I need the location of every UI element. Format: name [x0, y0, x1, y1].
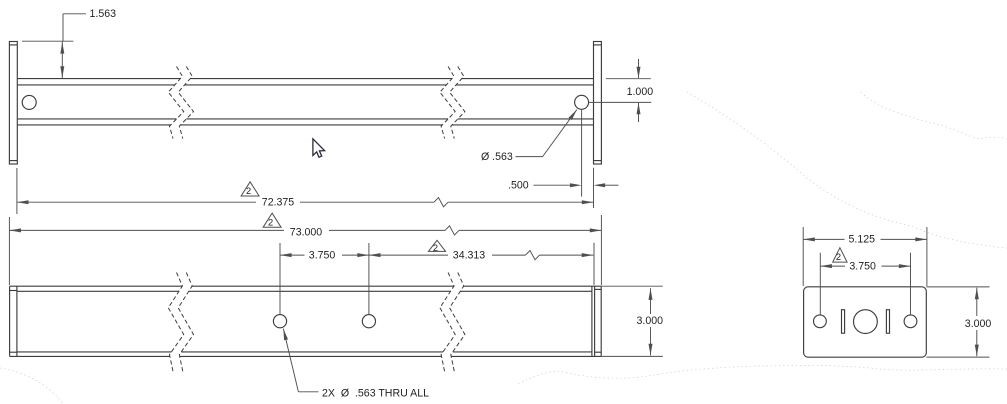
dim 1.563 arrows: [61, 41, 63, 78]
end view slot right: [886, 310, 889, 334]
plan view break symbol left: [168, 273, 183, 372]
svg-text:3.000: 3.000: [637, 315, 664, 327]
end view plate outline: [804, 287, 927, 357]
svg-text:2X Ø .563 THRU ALL: 2X Ø .563 THRU ALL: [322, 388, 429, 400]
end view center hole: [854, 310, 878, 334]
background faint curve bottom: [518, 365, 1007, 384]
dim 1.000 arrows: [638, 59, 640, 78]
side view break symbol right: [440, 67, 455, 139]
dim 3.000 end line: [976, 288, 978, 316]
svg-text:72.375: 72.375: [262, 196, 295, 208]
plan view break symbol right: [440, 273, 455, 372]
plan view hole 1: [273, 315, 286, 328]
svg-text:1.563: 1.563: [90, 8, 117, 20]
svg-text:3.750: 3.750: [849, 260, 876, 272]
plan view right end lines: [591, 286, 593, 356]
dim 1.563 extension line: [22, 40, 73, 42]
svg-text:2: 2: [268, 217, 273, 227]
dim 5.125 extension lines: [802, 227, 804, 286]
dim 73.000 line: [9, 228, 21, 232]
dim 34.313 extension line right: [593, 243, 595, 285]
dim 3.750 end line: [820, 264, 832, 268]
leader 2X thru holes: [283, 329, 288, 341]
svg-text:34.313: 34.313: [453, 249, 486, 261]
mouse cursor: [313, 139, 325, 158]
svg-text:2: 2: [836, 252, 841, 262]
dim 73.000 extension line right: [600, 215, 602, 285]
dim 72.375 flag triangle 2: [241, 182, 259, 196]
end view hole left: [814, 315, 827, 328]
dim 73.000 extension line left: [8, 217, 10, 285]
side view hole right: [575, 95, 589, 109]
dim 72.375 extension line left: [16, 168, 18, 214]
dim 34.313 line: [369, 253, 381, 257]
dim 3.000 end extension lines: [926, 286, 989, 288]
dim 73.000 flag triangle 2: [263, 213, 281, 227]
svg-text:3.000: 3.000: [965, 318, 992, 330]
background faint curve upper-right: [687, 92, 1007, 248]
dim 3.750 end extension lines: [819, 253, 821, 315]
dim 3.750 plan extension lines: [279, 243, 281, 314]
svg-text:2: 2: [246, 186, 251, 196]
side view hole left: [22, 95, 36, 109]
end view slot left: [842, 310, 845, 334]
dim .500 extension line tube end: [593, 168, 595, 208]
dim 72.375 line: [17, 200, 29, 204]
svg-text:3.750: 3.750: [309, 249, 336, 261]
svg-text:.500: .500: [508, 180, 529, 192]
svg-text:2: 2: [433, 243, 438, 253]
dim .500 lines: [534, 184, 572, 186]
dim 1.563 leader: [63, 13, 86, 15]
dim 5.125 line: [803, 237, 815, 241]
background faint arc bottom-left: [0, 368, 63, 404]
plan view tube outline lines: [10, 285, 183, 287]
plan view hole 2: [362, 315, 375, 328]
svg-text:1.000: 1.000: [627, 86, 654, 98]
end view hole right: [904, 315, 917, 328]
dim 3.750 end flag triangle 2: [833, 248, 847, 262]
dim 3.000 plan line: [650, 288, 652, 314]
svg-text:5.125: 5.125: [849, 234, 876, 246]
dim .500 extension line hole: [581, 110, 583, 197]
dim 34.313 flag triangle 2: [428, 240, 445, 251]
side view right end plate: [594, 42, 602, 165]
callout dia .563 leader: [516, 156, 543, 158]
background faint curve right: [861, 92, 1007, 139]
side view tube outline lines: [17, 78, 180, 80]
svg-text:Ø .563: Ø .563: [481, 151, 513, 163]
dim 1.000 extension lines: [606, 78, 651, 80]
dim 3.000 plan extension lines: [601, 285, 663, 287]
svg-text:73.000: 73.000: [290, 226, 323, 238]
plan view left end lines: [9, 286, 11, 356]
side view left end plate: [9, 42, 17, 165]
dim 3.750 plan line: [280, 253, 292, 257]
side view break symbol left: [168, 67, 183, 139]
